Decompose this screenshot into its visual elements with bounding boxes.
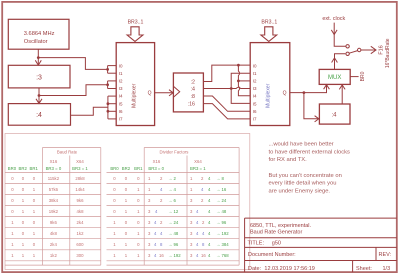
svg-text:0: 0 <box>33 198 36 203</box>
svg-text:4: 4 <box>154 220 157 225</box>
svg-text:4: 4 <box>154 253 157 258</box>
svg-text::16: :16 <box>188 102 195 108</box>
svg-text:I4: I4 <box>253 94 257 99</box>
svg-text:6850, TTL, experimental.: 6850, TTL, experimental. <box>250 223 312 229</box>
wire U3 Q to MUX input <box>290 85 330 93</box>
svg-text:3: 3 <box>148 253 151 258</box>
svg-text:ext. clock: ext. clock <box>322 16 345 22</box>
svg-text:1: 1 <box>137 187 140 192</box>
svg-text:Sheet:: Sheet: <box>356 266 372 272</box>
postdivider :4 U4 <box>319 104 350 124</box>
svg-text:→ 24: → 24 <box>168 220 179 225</box>
svg-text:Q: Q <box>283 91 287 97</box>
wire oscillator to mux1 I0 I1 <box>38 58 116 74</box>
svg-text:1: 1 <box>190 187 193 192</box>
svg-text:0: 0 <box>125 231 128 236</box>
wire MUX select BR0 <box>350 76 358 78</box>
svg-text:1: 1 <box>190 176 193 181</box>
svg-text:REV:: REV: <box>379 252 392 258</box>
svg-text:I6: I6 <box>119 109 123 114</box>
wire :3 to mux1 I2 I3 <box>39 81 116 96</box>
svg-text:0: 0 <box>33 242 36 247</box>
svg-text:3: 3 <box>148 198 151 203</box>
svg-text::8: :8 <box>191 94 195 100</box>
svg-text:2: 2 <box>201 176 204 181</box>
svg-text:BR3 = 0: BR3 = 0 <box>148 166 164 171</box>
svg-text:→ 12: → 12 <box>168 209 179 214</box>
svg-text:0: 0 <box>125 176 128 181</box>
divider factors table grid <box>107 148 240 266</box>
svg-text:0: 0 <box>11 209 14 214</box>
svg-text:4: 4 <box>154 231 157 236</box>
svg-text:4k8: 4k8 <box>50 231 58 236</box>
svg-text:0: 0 <box>137 220 140 225</box>
table area enclosure <box>5 134 250 270</box>
svg-text:Baud Rate Generator: Baud Rate Generator <box>250 230 302 236</box>
svg-text:0: 0 <box>137 198 140 203</box>
svg-text:1/3: 1/3 <box>383 266 391 272</box>
svg-text:1: 1 <box>33 187 36 192</box>
svg-text:1: 1 <box>113 220 116 225</box>
svg-text:19k2: 19k2 <box>49 209 59 214</box>
svg-text:X64: X64 <box>194 159 202 164</box>
svg-text:...would have been better: ...would have been better <box>269 142 334 148</box>
select arrow BR3..1 into U3 <box>261 27 277 42</box>
divider :4 <box>8 104 70 126</box>
svg-text:4: 4 <box>155 209 158 214</box>
junction dot :2 net at I0 <box>237 64 240 67</box>
svg-text:9k6: 9k6 <box>50 220 58 225</box>
svg-text:0: 0 <box>137 242 140 247</box>
svg-text:0: 0 <box>33 176 36 181</box>
wire :8 output to mux2 I6 <box>203 96 250 111</box>
svg-text:to have different external clo: to have different external clocks <box>269 149 351 155</box>
oscillator OSC1 3.6864 MHz <box>8 19 69 49</box>
svg-text::4: :4 <box>191 86 195 92</box>
svg-text:0: 0 <box>113 176 116 181</box>
wire :4 postdivider to MUX input <box>339 85 345 104</box>
svg-text:0: 0 <box>113 187 116 192</box>
svg-text:1: 1 <box>148 187 151 192</box>
svg-text:3: 3 <box>148 242 151 247</box>
svg-text:→ 48: → 48 <box>216 209 227 214</box>
svg-text:Multiplexer: Multiplexer <box>132 83 138 108</box>
svg-text:0: 0 <box>22 231 25 236</box>
svg-text:BR3..1: BR3..1 <box>261 20 277 26</box>
svg-text:I3: I3 <box>119 86 123 91</box>
svg-text:1: 1 <box>33 253 36 258</box>
junction dot at mux1 I0/I1 bracket <box>106 68 109 71</box>
svg-text:9k6: 9k6 <box>77 198 85 203</box>
junction dot :2 net at I2 <box>237 80 240 83</box>
svg-text:0: 0 <box>22 187 25 192</box>
svg-text:BR2: BR2 <box>122 166 131 171</box>
svg-text:1: 1 <box>113 242 116 247</box>
svg-text:4: 4 <box>208 220 211 225</box>
svg-text:1k2: 1k2 <box>50 253 58 258</box>
svg-text:1: 1 <box>137 253 140 258</box>
svg-text:115k2: 115k2 <box>48 176 60 181</box>
svg-text:3: 3 <box>190 253 193 258</box>
svg-text:12.03.2019 17:56:19: 12.03.2019 17:56:19 <box>264 266 314 272</box>
svg-text:for RX and TX.: for RX and TX. <box>269 157 308 163</box>
svg-text:I5: I5 <box>119 101 123 106</box>
svg-text:1: 1 <box>11 220 14 225</box>
svg-text:→ 4: → 4 <box>168 187 176 192</box>
svg-text:1: 1 <box>22 209 25 214</box>
svg-text:1: 1 <box>137 231 140 236</box>
svg-text:4: 4 <box>208 176 211 181</box>
svg-text:→ 768: → 768 <box>216 253 229 258</box>
svg-text:every little detail when you: every little detail when you <box>269 181 337 187</box>
svg-text:0: 0 <box>22 176 25 181</box>
svg-text:4: 4 <box>196 220 199 225</box>
junction dot at mux1 I2/I3 bracket <box>106 83 109 86</box>
svg-text:1: 1 <box>11 253 14 258</box>
svg-text:1: 1 <box>125 242 128 247</box>
wire oscillator output to :3 <box>35 49 41 65</box>
svg-text:I2: I2 <box>253 79 257 84</box>
svg-text:→ 16: → 16 <box>216 187 227 192</box>
svg-text:are under Enemy siege.: are under Enemy siege. <box>269 188 331 194</box>
svg-text:Document Number:: Document Number: <box>248 252 296 258</box>
divider factors table headers <box>153 150 203 165</box>
svg-text::4: :4 <box>331 112 337 118</box>
wire :3 output to :4 <box>36 88 42 104</box>
multiplexer U3 <box>250 43 290 126</box>
wire U1 Q to prescaler clock <box>155 90 174 96</box>
svg-text:1: 1 <box>33 209 36 214</box>
svg-text:1: 1 <box>125 253 128 258</box>
svg-text:3: 3 <box>148 231 151 236</box>
wire ext. clock to switch <box>331 23 346 47</box>
svg-text:I4: I4 <box>119 94 123 99</box>
svg-text:2k4: 2k4 <box>77 220 85 225</box>
svg-text:→ 6: → 6 <box>168 198 176 203</box>
svg-text:2: 2 <box>160 220 163 225</box>
wire MUX output to switch <box>332 54 346 70</box>
svg-text:4: 4 <box>208 231 211 236</box>
clock input triangle U2 <box>173 86 179 97</box>
svg-text:4: 4 <box>201 187 204 192</box>
svg-text:→ 2: → 2 <box>168 176 176 181</box>
svg-text::2: :2 <box>191 79 195 85</box>
svg-text:BR0: BR0 <box>110 166 119 171</box>
svg-text:→ 48: → 48 <box>168 231 179 236</box>
svg-text:3: 3 <box>190 242 193 247</box>
svg-text:2: 2 <box>160 198 163 203</box>
baud rate table data <box>11 176 85 258</box>
divider :3 <box>8 65 70 88</box>
switch lever <box>349 51 357 54</box>
svg-text:8: 8 <box>202 242 205 247</box>
switch SW1 <box>346 45 361 56</box>
svg-text:I1: I1 <box>119 71 123 76</box>
svg-text:1: 1 <box>11 231 14 236</box>
svg-text:1: 1 <box>125 209 128 214</box>
svg-text:4: 4 <box>196 242 199 247</box>
svg-text:0: 0 <box>113 209 116 214</box>
svg-text:3.6864 MHz: 3.6864 MHz <box>24 31 55 37</box>
svg-text:8: 8 <box>160 242 163 247</box>
svg-text:1: 1 <box>125 198 128 203</box>
svg-text:1: 1 <box>22 242 25 247</box>
svg-text:4: 4 <box>208 187 211 192</box>
svg-text:57k6: 57k6 <box>49 187 59 192</box>
junction dot Q2 branch <box>303 91 306 94</box>
select arrow BR3..1 into U1 <box>127 27 143 42</box>
svg-text:→ 192: → 192 <box>216 231 229 236</box>
junction dot at mux1 I5 <box>107 102 110 105</box>
svg-text:Q: Q <box>148 91 152 97</box>
note text <box>269 142 351 195</box>
svg-text:4: 4 <box>208 209 211 214</box>
svg-text:BR0: BR0 <box>360 71 366 81</box>
svg-text::4: :4 <box>36 112 42 119</box>
svg-text:4: 4 <box>208 253 211 258</box>
svg-text:X16: X16 <box>50 159 58 164</box>
baud rate table headers <box>50 150 85 165</box>
svg-text:16: 16 <box>159 253 164 258</box>
svg-text:X64: X64 <box>76 159 84 164</box>
multiplexer U1 <box>116 43 154 126</box>
svg-text:4: 4 <box>160 187 163 192</box>
svg-text:BR3 = 0: BR3 = 0 <box>46 166 62 171</box>
svg-text:I3: I3 <box>253 86 257 91</box>
svg-text:4: 4 <box>160 231 163 236</box>
svg-text:2: 2 <box>201 198 204 203</box>
svg-text:MUX: MUX <box>328 75 341 81</box>
svg-text:3: 3 <box>190 220 193 225</box>
svg-text:BR3 = 1: BR3 = 1 <box>72 166 88 171</box>
svg-text:BR2: BR2 <box>19 166 28 171</box>
svg-text:Date:: Date: <box>248 266 262 272</box>
svg-text:BR3..1: BR3..1 <box>128 20 144 26</box>
svg-text:1: 1 <box>22 198 25 203</box>
wire :4 to mux1 I4-I7 <box>71 96 117 119</box>
svg-text:0: 0 <box>11 187 14 192</box>
svg-text:0: 0 <box>11 198 14 203</box>
svg-text:1: 1 <box>148 176 151 181</box>
svg-text:I1: I1 <box>253 71 257 76</box>
svg-text:I0: I0 <box>253 63 257 68</box>
svg-text:2: 2 <box>160 176 163 181</box>
svg-text:0: 0 <box>113 198 116 203</box>
svg-text:→ 192: → 192 <box>168 253 181 258</box>
svg-text:28k8: 28k8 <box>75 176 85 181</box>
svg-text:4: 4 <box>208 198 211 203</box>
wire :2 output to mux2 I0 <box>203 65 250 81</box>
svg-text:BR3 = 1: BR3 = 1 <box>190 166 206 171</box>
svg-text:Baud Rate: Baud Rate <box>57 150 78 155</box>
svg-text:4: 4 <box>154 242 157 247</box>
svg-text:F16: F16 <box>378 45 384 54</box>
svg-text:0: 0 <box>125 187 128 192</box>
svg-text:Divider Factors: Divider Factors <box>160 150 189 155</box>
svg-text:X16: X16 <box>153 159 161 164</box>
svg-text:0: 0 <box>33 220 36 225</box>
svg-text:1: 1 <box>22 253 25 258</box>
svg-text:I6: I6 <box>253 109 257 114</box>
svg-text:2k4: 2k4 <box>50 242 58 247</box>
svg-text:3: 3 <box>148 220 151 225</box>
wire switch pole to F16 output <box>361 46 376 53</box>
svg-text:4: 4 <box>196 209 199 214</box>
svg-text::3: :3 <box>36 75 42 82</box>
svg-text:4k8: 4k8 <box>77 209 85 214</box>
svg-text:4: 4 <box>196 253 199 258</box>
svg-text:0: 0 <box>125 220 128 225</box>
svg-text:I7: I7 <box>253 117 257 122</box>
svg-text:BR0: BR0 <box>8 166 17 171</box>
wire Q2 to :4 postdivider <box>304 93 319 122</box>
wire :16 output to mux2 I7 <box>203 104 250 119</box>
junction dot :3 branch <box>38 94 41 97</box>
svg-text:Multiplexer: Multiplexer <box>266 83 272 108</box>
svg-text:BR1: BR1 <box>134 166 143 171</box>
svg-text:→ 384: → 384 <box>216 242 229 247</box>
divider factors table data <box>113 176 140 258</box>
svg-text:→ 24: → 24 <box>216 198 227 203</box>
svg-text:300: 300 <box>76 253 84 258</box>
svg-text:0: 0 <box>11 176 14 181</box>
svg-text:1: 1 <box>113 231 116 236</box>
svg-text:0: 0 <box>22 220 25 225</box>
svg-text:38k4: 38k4 <box>49 198 59 203</box>
svg-text:3: 3 <box>190 209 193 214</box>
junction dot at mux1 I6 <box>107 110 110 113</box>
svg-text:4: 4 <box>208 242 211 247</box>
svg-text:But you can't concentrate on: But you can't concentrate on <box>269 173 342 179</box>
junction dot :4 net at I3 <box>230 87 233 90</box>
svg-text:1: 1 <box>33 231 36 236</box>
svg-text:Oscillator: Oscillator <box>24 39 48 45</box>
wire :2 net vertical to I2 and I4 with hops <box>238 65 250 96</box>
svg-text:3: 3 <box>148 209 151 214</box>
svg-text:BR1: BR1 <box>30 166 39 171</box>
svg-text:→ 96: → 96 <box>216 220 227 225</box>
baud rate table grid <box>5 148 101 266</box>
svg-text:1: 1 <box>113 253 116 258</box>
svg-text:3: 3 <box>190 231 193 236</box>
prescaler divider U2 (:2 :4 :8 :16) <box>173 73 203 112</box>
svg-text:g50: g50 <box>272 240 281 246</box>
svg-text:1: 1 <box>137 209 140 214</box>
svg-text:2: 2 <box>202 220 205 225</box>
svg-text:1k2: 1k2 <box>77 231 85 236</box>
svg-text:→ 96: → 96 <box>168 242 179 247</box>
svg-text:14k4: 14k4 <box>75 187 85 192</box>
svg-text:I0: I0 <box>119 63 123 68</box>
svg-text:I5: I5 <box>253 101 257 106</box>
svg-text:0: 0 <box>137 176 140 181</box>
svg-text:4: 4 <box>202 231 205 236</box>
svg-text:TITLE:: TITLE: <box>248 240 265 246</box>
svg-text:3: 3 <box>190 198 193 203</box>
svg-text:I7: I7 <box>119 117 123 122</box>
junction dot oscillator branch <box>37 56 40 59</box>
svg-text:16*BaudRate: 16*BaudRate <box>385 38 391 68</box>
svg-text:1: 1 <box>11 242 14 247</box>
svg-text:4: 4 <box>196 231 199 236</box>
svg-text:16: 16 <box>201 253 206 258</box>
wire :4 output to mux2 I3 with hop <box>203 87 250 88</box>
title block <box>245 218 397 272</box>
svg-text:600: 600 <box>76 242 84 247</box>
svg-text:→ 8: → 8 <box>216 176 224 181</box>
output mux MUX <box>319 69 350 84</box>
svg-text:I2: I2 <box>119 79 123 84</box>
wire :4 net vertical to I1 and I5 <box>231 73 250 103</box>
